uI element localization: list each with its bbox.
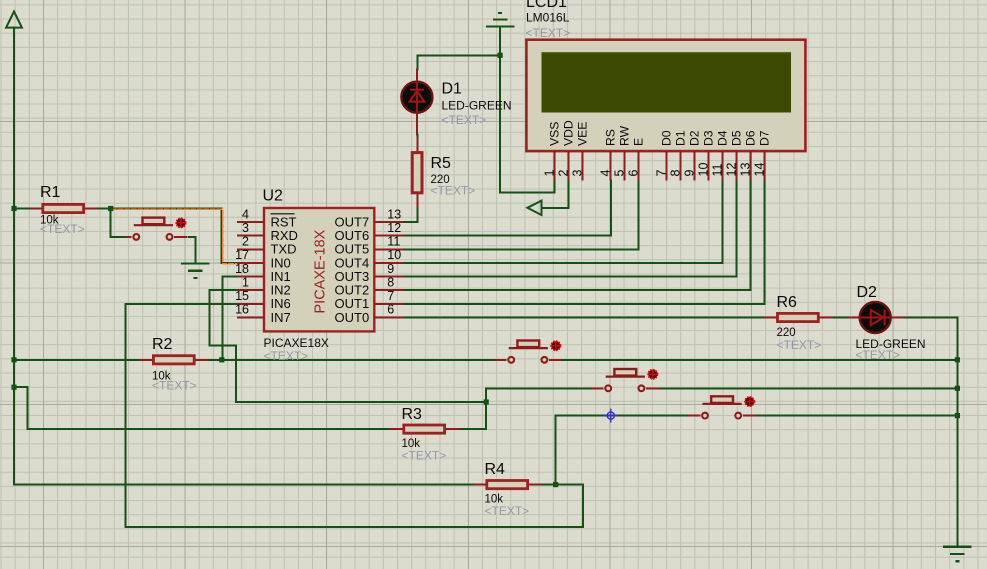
push button SW1 right stub: [174, 236, 187, 238]
svg-text:<TEXT>: <TEXT>: [442, 113, 487, 127]
wire node down to R3: [459, 402, 486, 429]
wire D1 top to ground node: [417, 54, 500, 56]
wire ground node to LCD VSS: [500, 27, 554, 193]
wire selected IN0 net base: [111, 209, 237, 264]
svg-text:6: 6: [387, 303, 394, 317]
resistor stubs: [30, 138, 833, 485]
junction R2 IN1: [219, 357, 224, 362]
push button SW4 contact bar: [703, 403, 742, 405]
svg-text:16: 16: [235, 303, 249, 317]
push button SW1 cap: [143, 218, 165, 225]
svg-text:RS: RS: [604, 129, 618, 146]
svg-text:PICAXE18X: PICAXE18X: [264, 336, 329, 350]
svg-text:3: 3: [242, 221, 249, 235]
junction right rail B: [955, 386, 960, 391]
svg-text:10: 10: [697, 163, 711, 177]
wire node down to button1: [111, 209, 127, 237]
svg-text:D3: D3: [702, 130, 716, 146]
svg-text:4: 4: [599, 170, 613, 177]
svg-text:7: 7: [387, 289, 394, 303]
svg-text:<TEXT>: <TEXT>: [40, 222, 85, 236]
push button SW2 right terminal: [542, 357, 548, 363]
push button SW2 contact bar: [509, 347, 548, 349]
svg-text:E: E: [632, 138, 646, 146]
svg-text:2: 2: [242, 235, 249, 249]
svg-text:R5: R5: [431, 155, 452, 172]
push button SW3 contact bar: [606, 376, 645, 378]
push button SW4 right terminal: [735, 413, 741, 419]
svg-text:9: 9: [683, 170, 697, 177]
push button SW4 actuator dot: [745, 397, 754, 406]
wire OUT3 to LCD D5: [404, 181, 737, 277]
junction IN2 R3 node: [484, 399, 489, 404]
push button SW1 actuator dot: [176, 218, 185, 227]
wire right rail vertical: [956, 318, 958, 547]
push button SW3 right terminal: [639, 385, 645, 391]
svg-text:<TEXT>: <TEXT>: [777, 338, 822, 352]
resistor R2 body: [153, 356, 194, 364]
power rail arrow top-left: [6, 12, 22, 28]
svg-text:<TEXT>: <TEXT>: [152, 379, 197, 393]
svg-text:D4: D4: [716, 130, 730, 146]
push button SW3 cap: [614, 369, 636, 376]
svg-text:1: 1: [543, 170, 557, 177]
svg-text:11: 11: [711, 163, 725, 176]
push button SW3 left terminal: [605, 385, 611, 391]
LCD1 screen: [542, 52, 792, 113]
svg-text:15: 15: [235, 289, 249, 303]
svg-text:12: 12: [725, 163, 739, 177]
push button SW2 right stub: [549, 359, 562, 361]
svg-text:4: 4: [242, 207, 249, 221]
junction ground node: [498, 53, 503, 58]
svg-text:<TEXT>: <TEXT>: [402, 449, 447, 463]
resistor R1 body: [43, 204, 84, 212]
svg-text:<TEXT>: <TEXT>: [485, 504, 530, 518]
svg-text:13: 13: [739, 163, 753, 177]
svg-text:D0: D0: [660, 130, 674, 146]
push button SW4 left stub: [689, 415, 701, 417]
wire R1 to node: [98, 208, 111, 210]
wire rail jog to R3 left: [14, 387, 389, 429]
svg-text:D6: D6: [744, 130, 758, 146]
junction rail R2: [11, 357, 16, 362]
svg-text:8: 8: [669, 170, 683, 177]
svg-text:PICAXE-18X: PICAXE-18X: [313, 229, 329, 313]
push button SW2 actuator dot: [551, 341, 560, 350]
U2 RST overline: [271, 213, 295, 215]
LED D1 stubs: [416, 69, 418, 136]
push button SW4 left terminal: [702, 413, 708, 419]
svg-text:VEE: VEE: [576, 122, 590, 146]
wire R6 to D2: [833, 317, 849, 319]
wire selected IN0 net highlight: [112, 209, 237, 264]
wire node up to button3: [486, 388, 592, 402]
wire button1 to ground: [189, 237, 195, 263]
LED D2: [860, 302, 891, 333]
wire down to D1: [416, 55, 418, 69]
wire IN1 to R2 node: [222, 277, 237, 360]
wire D2 to right rail: [904, 317, 957, 319]
origin marker (blue): [604, 409, 618, 423]
svg-text:13: 13: [387, 207, 401, 221]
resistor R6 body: [778, 313, 819, 321]
wire R4 right to bottom row to IN6: [126, 304, 584, 527]
wire OUT4 to LCD D4: [404, 181, 723, 263]
push button SW3 right stub: [646, 387, 659, 389]
push button SW2 cap: [517, 341, 539, 348]
push button SW3 left stub: [592, 387, 604, 389]
junction rail jog: [11, 385, 16, 390]
push button SW3 actuator dot: [648, 370, 657, 379]
junction right rail C: [955, 413, 960, 418]
svg-text:R4: R4: [485, 461, 506, 478]
wire OUT0 to R6: [404, 317, 764, 319]
svg-text:D1: D1: [674, 130, 688, 146]
wire OUT2 to LCD D6: [404, 181, 751, 291]
svg-text:LCD1: LCD1: [526, 0, 567, 11]
wire rail to R1: [14, 208, 30, 210]
svg-text:11: 11: [387, 235, 400, 249]
svg-text:7: 7: [655, 170, 669, 177]
svg-text:D1: D1: [442, 81, 463, 98]
svg-text:RW: RW: [618, 125, 632, 146]
push button SW2 left terminal: [508, 357, 514, 363]
push button SW1 contact bar: [134, 224, 173, 226]
svg-text:D7: D7: [758, 130, 772, 146]
svg-text:5: 5: [613, 170, 627, 177]
svg-text:9: 9: [387, 262, 394, 276]
wire rail to R4: [14, 484, 474, 486]
push button SW4 cap: [711, 396, 733, 403]
wire R4 node up to button4 row: [556, 416, 689, 485]
power arrow left near LCD pin2: [527, 201, 541, 215]
svg-text:OUT0: OUT0: [335, 310, 370, 325]
svg-text:LM016L: LM016L: [526, 11, 570, 25]
svg-text:U2: U2: [263, 188, 284, 205]
wire rail to R2: [14, 359, 139, 361]
wire left rail vertical: [13, 28, 15, 485]
push button SW1 left terminal: [133, 234, 139, 240]
wire OUT5 to LCD E: [404, 181, 639, 250]
svg-text:R1: R1: [40, 184, 61, 201]
svg-text:D2: D2: [688, 130, 702, 146]
svg-text:<TEXT>: <TEXT>: [264, 349, 309, 363]
LCD1 pin stubs: [555, 151, 765, 181]
svg-text:18: 18: [235, 262, 249, 276]
svg-text:D2: D2: [857, 284, 878, 301]
svg-text:8: 8: [387, 275, 394, 289]
svg-text:6: 6: [627, 170, 641, 177]
wire button3 to right rail: [659, 387, 957, 389]
junction rail R1: [11, 206, 16, 211]
junction right rail A: [955, 357, 960, 362]
svg-text:14: 14: [753, 163, 767, 177]
op-chip U2 PICAXE-18X body: [264, 208, 374, 331]
wire D1 to R5: [416, 135, 418, 145]
U2 right pin stubs: [374, 222, 403, 317]
svg-text:R2: R2: [152, 336, 173, 353]
svg-text:17: 17: [235, 248, 249, 262]
svg-text:<TEXT>: <TEXT>: [431, 184, 476, 198]
svg-text:D5: D5: [730, 130, 744, 146]
LED D2 stubs: [848, 317, 904, 319]
junction R1 node: [108, 206, 113, 211]
wire OUT1 to LCD D7: [404, 181, 765, 304]
LED D1: [401, 82, 432, 113]
svg-text:1: 1: [242, 275, 249, 289]
push button SW1 left stub: [127, 236, 132, 238]
svg-text:VSS: VSS: [548, 122, 562, 146]
junction R4 node: [553, 482, 558, 487]
svg-text:<TEXT>: <TEXT>: [856, 348, 901, 362]
svg-text:10: 10: [387, 248, 401, 262]
ground G-button1: [181, 264, 210, 278]
wire OUT7 to R5: [404, 209, 418, 223]
push button SW1 right terminal: [167, 234, 173, 240]
LCD1 LM016L body: [526, 40, 805, 151]
wire LCD VDD to power arrow: [542, 181, 568, 208]
ground G-bottom-right: [943, 547, 972, 561]
wire R2 to button2: [209, 359, 495, 361]
push button SW4 right stub: [743, 415, 756, 417]
wire OUT6 to LCD RS: [404, 181, 611, 236]
wire IN2 run: [210, 290, 487, 402]
svg-text:<TEXT>: <TEXT>: [526, 26, 571, 40]
svg-text:2: 2: [557, 170, 571, 177]
ground G-top near LCD: [486, 13, 515, 27]
wire button2 to right rail: [562, 359, 957, 361]
svg-text:R3: R3: [402, 406, 423, 423]
svg-text:IN7: IN7: [271, 310, 291, 325]
svg-text:R6: R6: [777, 294, 798, 311]
svg-text:12: 12: [387, 221, 401, 235]
U2 left pin stubs: [237, 222, 264, 317]
push button SW2 left stub: [495, 359, 507, 361]
resistor R5 body (vertical): [412, 153, 422, 193]
svg-text:3: 3: [571, 170, 585, 177]
wire button4 to right rail: [756, 415, 957, 417]
resistor R4 body: [487, 481, 528, 489]
resistor R3 body: [404, 425, 445, 433]
svg-text:LED-GREEN: LED-GREEN: [442, 99, 512, 113]
svg-text:VDD: VDD: [562, 120, 576, 146]
